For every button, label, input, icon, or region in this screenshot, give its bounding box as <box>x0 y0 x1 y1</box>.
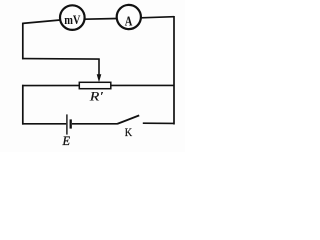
svg-text:A: A <box>125 14 133 29</box>
svg-text:R′: R′ <box>89 89 103 104</box>
ammeter A <box>117 5 141 29</box>
wire wiper vertical <box>98 59 100 77</box>
rheostat R' body <box>79 82 111 88</box>
millivoltmeter mV <box>60 5 85 30</box>
wire middle row <box>22 84 174 86</box>
wire bottom right <box>143 122 174 124</box>
wire bottom middle <box>72 123 117 125</box>
wiper arrowhead <box>97 74 102 82</box>
wire left lower vertical <box>22 85 24 125</box>
wire wiper horizontal <box>22 58 100 61</box>
switch K blade <box>117 115 139 124</box>
wire left upper vertical <box>22 23 24 60</box>
wire top row <box>23 17 174 24</box>
svg-text:mV: mV <box>64 12 81 27</box>
svg-text:K: K <box>125 126 133 139</box>
battery E positive plate <box>66 114 68 134</box>
wire bottom left <box>22 123 66 125</box>
svg-text:E: E <box>62 134 71 148</box>
wire right vertical <box>173 16 175 125</box>
battery E negative plate <box>70 119 72 128</box>
